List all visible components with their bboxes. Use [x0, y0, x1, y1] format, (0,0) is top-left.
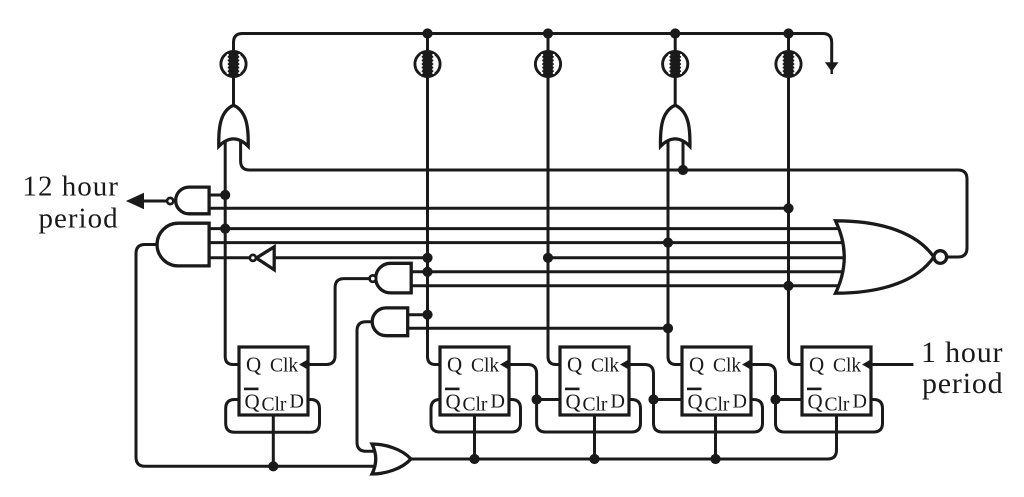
- wire lamp2 to FF2 Q vertical: [428, 76, 441, 365]
- nand U2 (faces left): [376, 263, 412, 293]
- svg-text:Q: Q: [246, 353, 261, 377]
- svg-text:Clk: Clk: [270, 356, 298, 377]
- wire big AND output down left side to bottom clear rail: [136, 245, 376, 467]
- nor gate G5 bubble: [934, 251, 947, 264]
- wire bus line FF1.Q : AND input 1 to NOR input 1: [209, 227, 846, 230]
- svg-text:Clk: Clk: [713, 356, 741, 377]
- wire 12 hour output line from arrow to NAND bubble: [143, 200, 167, 203]
- lamp LP3: [535, 51, 560, 76]
- wire FF1 Clr stub: [272, 415, 275, 466]
- node dot NAND U2 in1 at Q2: [422, 267, 432, 277]
- svg-text:Q: Q: [688, 390, 703, 414]
- wire lamp4 bottom stub to OR2 apex: [674, 76, 677, 106]
- wire lamp5 top stub: [787, 34, 790, 53]
- wire bus line FF2.Q : NAND U2 input 1 to NOR input 4: [411, 270, 846, 273]
- node dot rail-lamp2: [422, 28, 432, 38]
- wire top power rail with corners to lamp1 and to ground stub: [234, 34, 832, 65]
- nor gate G5 (5-input): [836, 221, 934, 293]
- arrow 12 hour period output: [126, 193, 144, 209]
- node dot FF2 Clr on clear rail: [469, 454, 479, 464]
- or-gate G2 (under lamp 4): [660, 105, 689, 146]
- wire OR4 output clear rail to FF5 Clr: [411, 415, 837, 459]
- svg-text:Clr: Clr: [825, 395, 850, 416]
- nand U2 bubble: [370, 275, 376, 281]
- node dot NAND U1 in1 at Q1: [220, 190, 230, 200]
- node dot rail-lamp4: [670, 28, 680, 38]
- wire FF2 Qbar to D loop: [431, 400, 521, 433]
- wire NAND U1 input 1 to node Q1: [209, 194, 225, 197]
- wire OR1 right input down, right along y=170, up riser from NOR output: [241, 139, 967, 257]
- svg-text:12 hour: 12 hour: [23, 171, 119, 203]
- lamp LP4: [663, 51, 688, 76]
- svg-text:Q: Q: [566, 390, 581, 414]
- svg-text:Clr: Clr: [463, 395, 488, 416]
- svg-text:Q: Q: [809, 353, 824, 377]
- node dot rail-lamp5: [783, 28, 793, 38]
- node dot FF4 Qbar junction: [648, 394, 658, 404]
- svg-text:Q: Q: [245, 390, 260, 414]
- wire OR2 right input stub down to node on y=170 line: [682, 139, 685, 170]
- node dot FF3 Clr on clear rail: [589, 454, 599, 464]
- svg-text:D: D: [290, 391, 304, 413]
- node dot NAND U1 in2 at Q5: [783, 203, 793, 213]
- wire lamp2 top stub: [426, 34, 429, 53]
- lamp LP1: [221, 51, 246, 76]
- wire AND U3 output down to OR4 top input: [357, 322, 376, 451]
- wire FF2 Clk from FF3 loop, FF3 Qbar-D loop: [509, 365, 641, 433]
- wire AND U3 input 2 to node Q4: [408, 327, 668, 330]
- wire FF4 Clr stub: [714, 415, 717, 459]
- wire lamp3 to FF3 Q vertical: [548, 76, 560, 365]
- svg-text:Q: Q: [446, 390, 461, 414]
- wire lamp4 top stub: [674, 34, 677, 53]
- wire FF5 Qbar stub: [776, 398, 803, 401]
- wire bus line FF5.Q : NAND U2 input 2 to NOR input 5: [411, 284, 846, 287]
- node dot AND U3 in1 at Q2: [422, 310, 432, 320]
- wire NAND U2 output to FF1 Clk: [308, 279, 370, 365]
- wire node Q4 vertical: OR2 left input down to FF4 Q: [668, 139, 682, 365]
- node dot OR2 input on y170 line: [678, 165, 688, 175]
- node dot rail-lamp3: [543, 28, 553, 38]
- wire FF3 Clr stub: [593, 415, 596, 459]
- node dot inverter line at Q2: [422, 253, 432, 263]
- wire bus segment FF3.Q to NOR input 3: [548, 256, 846, 259]
- node dot FF5 Qbar junction: [770, 394, 780, 404]
- wire bus line FF4.Q : AND input 2 to NOR input 2: [209, 241, 846, 244]
- flip-flop FF1: [239, 347, 309, 416]
- nand U1 (12 hour detect, output faces left): [176, 187, 209, 214]
- svg-text:Clk: Clk: [591, 356, 619, 377]
- node dot NOR in3 at Q3: [543, 253, 553, 263]
- and gate G3 (3-input, output faces left): [157, 223, 209, 266]
- node dot AND in2 at Q4: [663, 238, 673, 248]
- node dot AND in1 at Q1: [220, 224, 230, 234]
- svg-text:period: period: [922, 367, 1003, 400]
- flip-flop FF4: [682, 347, 752, 416]
- flip-flop FF2: [440, 347, 510, 416]
- wire FF3 Clk from FF4 loop, FF4 Qbar-D loop: [629, 365, 763, 433]
- svg-text:Q: Q: [689, 353, 704, 377]
- svg-text:Clr: Clr: [262, 395, 287, 416]
- wire FF4 Qbar stub: [654, 398, 683, 401]
- wire FF2 Clr stub: [473, 415, 476, 459]
- and U3 (faces left): [372, 308, 408, 336]
- inverter U4 bubble: [250, 255, 256, 261]
- svg-text:D: D: [491, 391, 505, 413]
- node dot NAND U2 in2 at Q5: [783, 281, 793, 291]
- svg-text:Clr: Clr: [705, 395, 730, 416]
- or-gate G4 (bottom clear OR): [372, 444, 411, 474]
- wire FF4 Clk from FF5 loop, FF5 Qbar-D loop: [751, 365, 883, 433]
- lamp LP2: [415, 51, 440, 76]
- svg-text:D: D: [611, 391, 625, 413]
- wire lamp3 top stub: [547, 34, 550, 53]
- node dot FF3 Qbar junction: [532, 394, 542, 404]
- svg-text:Q: Q: [567, 353, 582, 377]
- wire FF3 Qbar stub: [537, 398, 560, 401]
- inverter U4 (faces left): [256, 247, 274, 270]
- nand U1 bubble: [167, 198, 173, 204]
- svg-text:D: D: [733, 391, 747, 413]
- node dot FF1 Clr on reset rail: [268, 461, 278, 471]
- svg-text:Clk: Clk: [471, 356, 499, 377]
- wire 1 hour period input to FF5 Clk: [871, 363, 913, 366]
- node dot FF4 Clr on clear rail: [710, 454, 720, 464]
- svg-text:D: D: [853, 391, 867, 413]
- flip-flop FF3: [560, 347, 630, 416]
- svg-text:Clk: Clk: [833, 356, 861, 377]
- flip-flop FF5: [802, 347, 872, 416]
- wire lamp1 bottom stub to OR1 apex: [232, 76, 235, 106]
- lamp LP5: [776, 51, 801, 76]
- or-gate G1 (under lamp 1): [219, 105, 248, 146]
- wire AND U3 input 1 to node Q2: [408, 313, 428, 316]
- wire node Q1 vertical: OR1 left input down to FF1 Q: [225, 139, 239, 365]
- wire lamp5 to FF5 Q vertical: [789, 76, 803, 365]
- svg-text:1 hour: 1 hour: [921, 336, 1003, 369]
- svg-text:period: period: [39, 203, 119, 235]
- wire FF1 Qbar to D loop: [226, 400, 320, 433]
- wire AND input 3 from inverter, inverter input line to node Q2: [209, 256, 427, 259]
- ground: [831, 64, 833, 74]
- node dot AND U3 in2 at Q4: [663, 323, 673, 333]
- svg-text:Q: Q: [808, 390, 823, 414]
- svg-text:Clr: Clr: [583, 395, 608, 416]
- svg-text:Q: Q: [447, 353, 462, 377]
- wire NAND U1 input 2 long line to node Q5: [209, 207, 788, 210]
